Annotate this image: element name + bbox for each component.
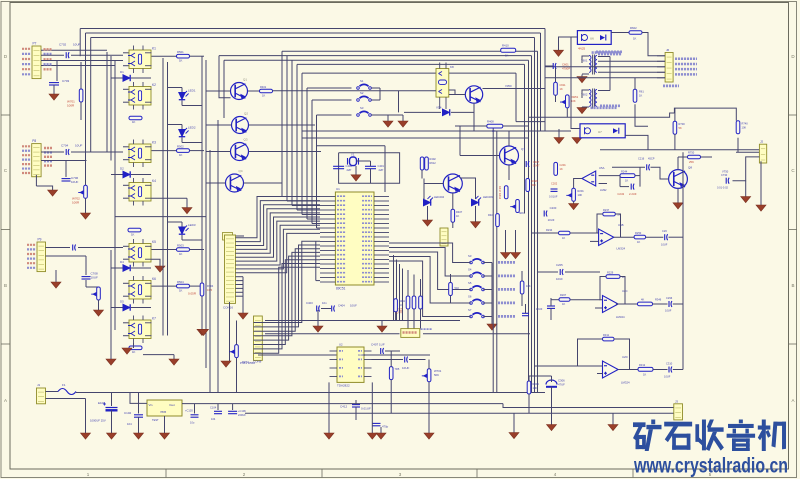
- wire loop right: [639, 167, 641, 186]
- zone tick right: [789, 114, 798, 116]
- wire to R452: [420, 279, 422, 296]
- svg-text:10UF: 10UF: [350, 304, 357, 308]
- svg-text:LM324: LM324: [621, 381, 630, 385]
- wire to ground right of K4: [186, 198, 188, 207]
- svg-text:4N25: 4N25: [578, 47, 586, 51]
- wire top bus 3: [91, 37, 535, 39]
- wire bus row y60.3: [292, 59, 529, 61]
- wire VD4 right: [451, 111, 474, 113]
- wire to E100: [111, 393, 113, 407]
- wire P1 pin 15: [235, 291, 243, 293]
- wire P2 pin 8 to MCU: [254, 267, 321, 353]
- svg-text:25K: 25K: [689, 160, 694, 164]
- label key function 1: [498, 261, 515, 264]
- wire vertical bus x85.5: [85, 33, 87, 185]
- svg-text:0.01UF: 0.01UF: [549, 195, 558, 199]
- wire vertical x537.5: [537, 51, 539, 392]
- ground power 2: [107, 433, 117, 439]
- fuse F1: [58, 389, 76, 395]
- resistor R229: [606, 275, 620, 279]
- svg-text:1K: 1K: [560, 167, 563, 171]
- capacitor C406: [405, 357, 408, 363]
- svg-text:P451 D550: P451 D550: [240, 361, 255, 365]
- svg-text:D5: D5: [120, 300, 124, 304]
- wire C406 to RW701: [409, 359, 426, 361]
- svg-text:U2: U2: [339, 343, 343, 347]
- wire P1 to ground: [229, 302, 231, 361]
- zone tick left: [1, 343, 10, 345]
- wire bus row ext 2: [224, 59, 292, 61]
- wire U5B in+: [590, 240, 599, 242]
- wire C704 to K3: [71, 151, 123, 153]
- svg-text:R61: R61: [639, 90, 644, 94]
- pin label: [27, 253, 36, 255]
- wire R311 loop left: [578, 339, 603, 366]
- wire P2 pin 6 to MCU: [254, 260, 321, 345]
- wire MCU right pin stub: [374, 254, 389, 256]
- wire MCU to audio 0: [393, 255, 395, 321]
- diode D4: [123, 265, 130, 271]
- wire S7 right: [483, 316, 492, 318]
- wire E100 down: [111, 410, 113, 433]
- svg-text:RW61: RW61: [571, 95, 579, 99]
- wire C705 to K5: [78, 247, 123, 249]
- svg-text:S2: S2: [360, 91, 364, 95]
- wire vertical x167.5: [167, 62, 169, 336]
- ground below P8: [48, 190, 58, 196]
- svg-text:1K: 1K: [633, 37, 637, 41]
- wire long y216.6: [115, 216, 206, 218]
- net label: [44, 156, 52, 158]
- wire to LED3: [181, 222, 183, 227]
- transistor Q3: [231, 143, 249, 161]
- wire down to C703: [56, 61, 58, 82]
- wire P2 pin 1 to MCU: [254, 241, 321, 322]
- svg-text:VD4: VD4: [436, 106, 442, 110]
- wire J1 to fuse: [46, 391, 59, 393]
- wire R503 right: [190, 249, 205, 251]
- zone tick left: [1, 114, 10, 116]
- pin label: [22, 68, 31, 70]
- wire R244 right: [635, 175, 640, 177]
- wire Q8 emitter: [677, 188, 679, 202]
- wire MCU right pin stub: [374, 268, 389, 270]
- label J6 pin text: [675, 68, 697, 71]
- wire C216 to Q8: [651, 167, 669, 179]
- net label: [44, 63, 52, 65]
- wire to switch S2: [312, 99, 352, 101]
- capacitor C408: [526, 161, 529, 167]
- svg-text:1K: 1K: [179, 289, 183, 293]
- svg-text:R346: R346: [655, 298, 662, 302]
- svg-text:R417 R412: R417 R412: [498, 186, 502, 200]
- wire to K5 pin lower: [123, 258, 129, 260]
- wire P9 to C705: [46, 247, 71, 249]
- svg-text:B: B: [4, 283, 7, 288]
- resistor R612: [633, 89, 637, 102]
- wire P7 to K1 lower pin: [41, 60, 123, 62]
- svg-text:1K: 1K: [262, 94, 265, 98]
- wire R408 right: [503, 125, 529, 127]
- svg-text:J2: J2: [760, 140, 764, 144]
- wire U5A in2: [599, 183, 607, 185]
- ground below P1: [221, 361, 231, 367]
- svg-text:C402: C402: [346, 164, 353, 168]
- ground C306: [547, 425, 557, 431]
- svg-text:10UF: 10UF: [665, 309, 672, 313]
- resistor R246: [449, 283, 453, 296]
- svg-text:10UF: 10UF: [75, 144, 83, 148]
- svg-text:0.05R: 0.05R: [188, 292, 197, 296]
- ground 7805: [160, 433, 170, 439]
- wire bus row ext: [219, 55, 287, 57]
- connector P9: [37, 242, 46, 272]
- svg-text:K6: K6: [152, 277, 156, 281]
- svg-text:LM324: LM324: [616, 315, 625, 319]
- wire MCU right pin stub: [374, 209, 389, 211]
- wire TDA left pin: [330, 367, 338, 369]
- wire to K2 pin: [123, 88, 129, 90]
- wire to K7 pin: [123, 322, 129, 324]
- zone tick bottom: [321, 469, 323, 478]
- svg-text:C104: C104: [210, 406, 217, 410]
- wire P2 pin 7 to MCU: [254, 264, 321, 349]
- wire J6 pin stub: [657, 60, 665, 62]
- pin label: [22, 172, 31, 174]
- wire C403 down: [317, 310, 319, 326]
- svg-text:Q4: Q4: [239, 169, 243, 173]
- wire P2 pin 2 to MCU: [254, 245, 321, 327]
- svg-text:R502: R502: [177, 145, 184, 149]
- wire S6 to MCU: [389, 257, 471, 304]
- wire C401 top: [370, 161, 372, 166]
- wire to MCU pin row 6: [312, 223, 320, 225]
- wire R501 right: [190, 55, 205, 57]
- wire S5 right: [483, 289, 492, 291]
- wire x516 down: [515, 73, 517, 122]
- capacitor C706: [62, 179, 71, 181]
- connector P8: [32, 144, 41, 177]
- svg-text:F1: F1: [62, 383, 66, 387]
- wire P1 pin 14: [235, 287, 243, 289]
- ground near jack: [377, 326, 387, 332]
- wire switch common: [491, 263, 493, 325]
- wire from J10: [233, 235, 245, 237]
- label key function 4: [498, 301, 515, 304]
- svg-text:1K: 1K: [179, 252, 183, 256]
- wire to K8 left: [399, 90, 437, 92]
- wire to C208: [550, 298, 552, 306]
- svg-text:D1: D1: [120, 70, 124, 74]
- wire long to J6 pin3: [545, 66, 665, 68]
- svg-text:J6: J6: [666, 48, 670, 52]
- wire R502 left: [152, 150, 177, 152]
- wire vertical x111: [110, 56, 112, 161]
- wire to LED204: [423, 179, 425, 200]
- wire MCU right pin stub: [374, 281, 389, 283]
- wire to ground S3a: [387, 115, 389, 121]
- wire S4 to MCU: [389, 248, 471, 277]
- LED LED204: [424, 196, 434, 206]
- svg-text:Q8: Q8: [688, 166, 692, 170]
- wire vertical bus x80: [79, 29, 81, 57]
- wire MCU right pin stub: [374, 227, 389, 229]
- wire stair drop x292: [291, 60, 293, 205]
- wire MCU left pin stub: [320, 227, 335, 229]
- svg-text:R501: R501: [177, 50, 184, 54]
- connector J11: [440, 228, 448, 246]
- wire MCU left pin stub: [320, 254, 335, 256]
- wire P1 pin 13: [235, 284, 243, 286]
- wire to ground: [36, 186, 52, 190]
- svg-text:U1: U1: [336, 187, 340, 191]
- svg-text:LED1: LED1: [188, 89, 196, 93]
- wire from diode D4: [131, 267, 151, 269]
- wire P1 pin 11: [235, 276, 243, 278]
- wire C708 to RW703: [85, 280, 87, 287]
- capacitor C216: [647, 164, 650, 170]
- wire vertical x210: [209, 150, 211, 393]
- wire x460 down: [459, 126, 461, 156]
- wire R246 top: [450, 274, 452, 283]
- wire bus row y64.4: [297, 63, 525, 65]
- wire C702 to K1: [71, 54, 123, 56]
- svg-text:LM32: LM32: [600, 188, 607, 192]
- wire below R701: [80, 102, 82, 120]
- wire MCU left pin stub: [320, 259, 335, 261]
- resistor R441: [394, 299, 398, 312]
- wire LED203 down: [475, 206, 477, 222]
- label opto chinese: [592, 51, 621, 54]
- svg-text:C412: C412: [340, 405, 348, 409]
- resistor R346: [638, 302, 653, 306]
- svg-text:C404: C404: [338, 304, 345, 308]
- wire y121.6: [516, 121, 545, 123]
- wire MCU left pin stub: [320, 236, 335, 238]
- wire T602 to J6: [598, 71, 665, 73]
- svg-text:R207: R207: [560, 293, 567, 297]
- connector J10: [223, 233, 233, 241]
- wire to C601: [545, 65, 553, 67]
- label left chinese 1: [598, 53, 622, 56]
- svg-text:51K: 51K: [455, 286, 460, 290]
- svg-text:U2D: U2D: [622, 355, 628, 359]
- resistor R13: [128, 228, 141, 232]
- svg-text:VT50: VT50: [722, 170, 729, 174]
- wire vertical x531.5: [531, 56, 533, 393]
- capacitor C402: [333, 166, 344, 168]
- wire TDA pin4 down: [328, 382, 330, 433]
- wire T601 left bottom: [582, 73, 589, 75]
- label T601 chinese: [596, 50, 622, 53]
- svg-text:LED2: LED2: [188, 126, 196, 130]
- svg-text:5K: 5K: [679, 126, 682, 130]
- svg-text:S3: S3: [360, 106, 364, 110]
- svg-text:10UF: 10UF: [91, 276, 99, 280]
- wire S3 right: [483, 262, 492, 264]
- wire R730 down: [674, 134, 676, 150]
- connector J2: [759, 144, 766, 163]
- wire base Q1: [206, 90, 231, 92]
- wire C306 down: [551, 387, 553, 425]
- potentiometer RW702: [78, 185, 87, 198]
- switch S5: [470, 286, 485, 291]
- wire P1 pin 7 to MCU: [235, 221, 320, 261]
- wire TDA left pin: [330, 359, 338, 361]
- wire 7805 gnd: [164, 416, 166, 433]
- svg-text:S1: S1: [360, 79, 364, 83]
- pin label: [22, 163, 31, 165]
- wire to MCU pin row 2: [292, 205, 320, 207]
- wire vertical x528.5: [528, 60, 530, 392]
- wire vertical x206: [205, 60, 207, 368]
- capacitor C106 electrolytic: [228, 411, 237, 413]
- label headphone port blue: [421, 328, 433, 330]
- wire to MCU pin row 4: [302, 214, 320, 216]
- svg-text:104: 104: [127, 422, 132, 426]
- wire to R750: [678, 156, 688, 158]
- wire U2D in+: [597, 373, 603, 375]
- wire TDA right pin: [364, 359, 372, 361]
- watermark glyph kuang: [633, 420, 662, 452]
- wire Q2 right: [249, 124, 316, 126]
- resistor R450: [406, 296, 410, 309]
- wire U2D out: [618, 369, 638, 371]
- svg-text:S5: S5: [468, 281, 472, 285]
- wire S6 right: [483, 302, 492, 304]
- wire MCU right pin stub: [374, 241, 389, 243]
- svg-text:U6: U6: [590, 37, 594, 41]
- wire long y138: [302, 137, 529, 139]
- wire y117.2 left part: [529, 116, 572, 118]
- wire opto left: [559, 37, 578, 50]
- net label: [44, 147, 52, 149]
- switch S4: [470, 272, 485, 277]
- svg-text:U5A: U5A: [599, 166, 605, 170]
- wire RW701 to ground: [428, 382, 430, 433]
- switch S2: [357, 96, 372, 101]
- wire to K3 pin lower: [123, 159, 129, 161]
- wire top bus 2: [86, 32, 541, 34]
- relay K6: [128, 276, 152, 304]
- relay K1: [128, 46, 152, 74]
- svg-text:1K: 1K: [562, 302, 565, 306]
- capacitor C412: [352, 405, 360, 407]
- wire W1 jog to J3: [503, 404, 674, 408]
- wire U2C out: [616, 303, 638, 305]
- wire bus row y51.2: [282, 50, 538, 52]
- svg-text:LED3: LED3: [188, 223, 196, 227]
- svg-text:1K: 1K: [132, 120, 136, 124]
- wire to RW703: [86, 286, 99, 288]
- relay K2: [128, 82, 152, 110]
- svg-text:C205: C205: [556, 263, 563, 267]
- wire to R730: [674, 108, 676, 121]
- pin label: [22, 159, 31, 161]
- resistor R12: [129, 116, 142, 120]
- wire R740 down: [737, 138, 739, 153]
- zone tick bottom: [632, 469, 634, 478]
- capacitor C601: [553, 63, 556, 69]
- svg-text:10UF: 10UF: [664, 375, 671, 379]
- svg-text:10UF: 10UF: [661, 243, 668, 247]
- potentiometer RW704: [229, 345, 238, 358]
- zone tick right: [789, 229, 798, 231]
- capacitor C247: [631, 184, 634, 190]
- potentiometer RW601: [560, 95, 569, 108]
- transistor Q7: [500, 146, 519, 165]
- wire S4 right: [483, 275, 492, 277]
- svg-text:K4: K4: [152, 179, 156, 183]
- wire Q7 base: [460, 155, 500, 157]
- svg-text:D4: D4: [120, 260, 124, 264]
- wire TDA right pin: [364, 367, 372, 369]
- svg-text:R312: R312: [639, 363, 646, 367]
- wire out LED3: [182, 239, 202, 241]
- svg-text:4700P: 4700P: [562, 67, 570, 71]
- connector P1 CON16: [225, 235, 236, 303]
- svg-text:0.047: 0.047: [533, 164, 540, 168]
- ground TDA 1: [324, 433, 334, 439]
- capacitor C208: [547, 306, 555, 308]
- wire RW701 top: [428, 360, 430, 369]
- wire x571 down to y117: [571, 37, 674, 118]
- svg-text:C407 1UF: C407 1UF: [371, 343, 385, 347]
- wire MCU left pin stub: [320, 277, 335, 279]
- resistor R502: [177, 149, 190, 153]
- wire P8 to C704: [41, 151, 64, 153]
- wire R250 right: [646, 236, 664, 238]
- svg-text:LED203: LED203: [483, 195, 494, 199]
- wire P1 pin 12: [235, 280, 243, 282]
- svg-text:E100: E100: [98, 401, 105, 405]
- wire top bus 1: [80, 28, 545, 30]
- capacitor C104: [214, 411, 222, 413]
- wire S2 right: [371, 99, 380, 101]
- wire U2D in-: [535, 365, 603, 367]
- relay K3: [128, 140, 152, 168]
- net label: [44, 160, 52, 162]
- wire to K7 pin lower: [123, 335, 129, 337]
- svg-text:J1: J1: [37, 383, 41, 387]
- wire to diode D2: [111, 174, 123, 176]
- LED LED2: [179, 128, 189, 137]
- wire vertical x107: [106, 52, 108, 152]
- wire to C216: [612, 166, 645, 168]
- svg-text:www.crystalradio.cn: www.crystalradio.cn: [633, 455, 788, 478]
- wire x385 down to MCU: [384, 146, 386, 192]
- wire out LED2: [182, 142, 202, 144]
- wire TDA left pin: [330, 376, 338, 378]
- optocoupler U602: [580, 124, 625, 138]
- wire to C103: [194, 404, 196, 414]
- pin label: [27, 248, 36, 250]
- wire vertical x545: [544, 29, 546, 132]
- wire R247 bottom: [521, 294, 523, 306]
- wire S3 to MCU: [389, 243, 471, 263]
- svg-text:10UF: 10UF: [71, 180, 79, 184]
- wire R229 loop left: [600, 277, 606, 301]
- svg-text:10UF: 10UF: [402, 366, 410, 370]
- svg-text:K3: K3: [152, 141, 156, 145]
- wire MCU right pin stub: [374, 250, 389, 252]
- transistor Q1: [231, 83, 248, 100]
- svg-text:K2: K2: [152, 83, 156, 87]
- wire from P7 pin 1: [41, 49, 107, 51]
- svg-text:P9: P9: [38, 238, 42, 242]
- wire base Q2: [206, 124, 232, 126]
- svg-text:R229: R229: [607, 270, 614, 274]
